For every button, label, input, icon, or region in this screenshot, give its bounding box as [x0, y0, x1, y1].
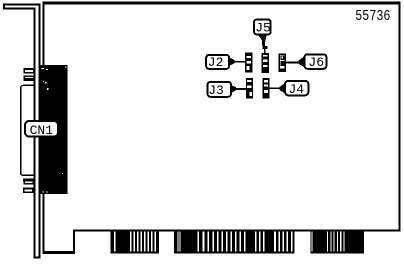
svg-text:J4: J4 [288, 82, 304, 97]
svg-text:J3: J3 [208, 83, 224, 98]
svg-text:J6: J6 [308, 55, 324, 70]
svg-text:J5: J5 [255, 20, 271, 35]
svg-text:55736: 55736 [355, 8, 390, 24]
svg-text:J2: J2 [208, 55, 224, 70]
svg-text:CN1: CN1 [30, 123, 54, 138]
